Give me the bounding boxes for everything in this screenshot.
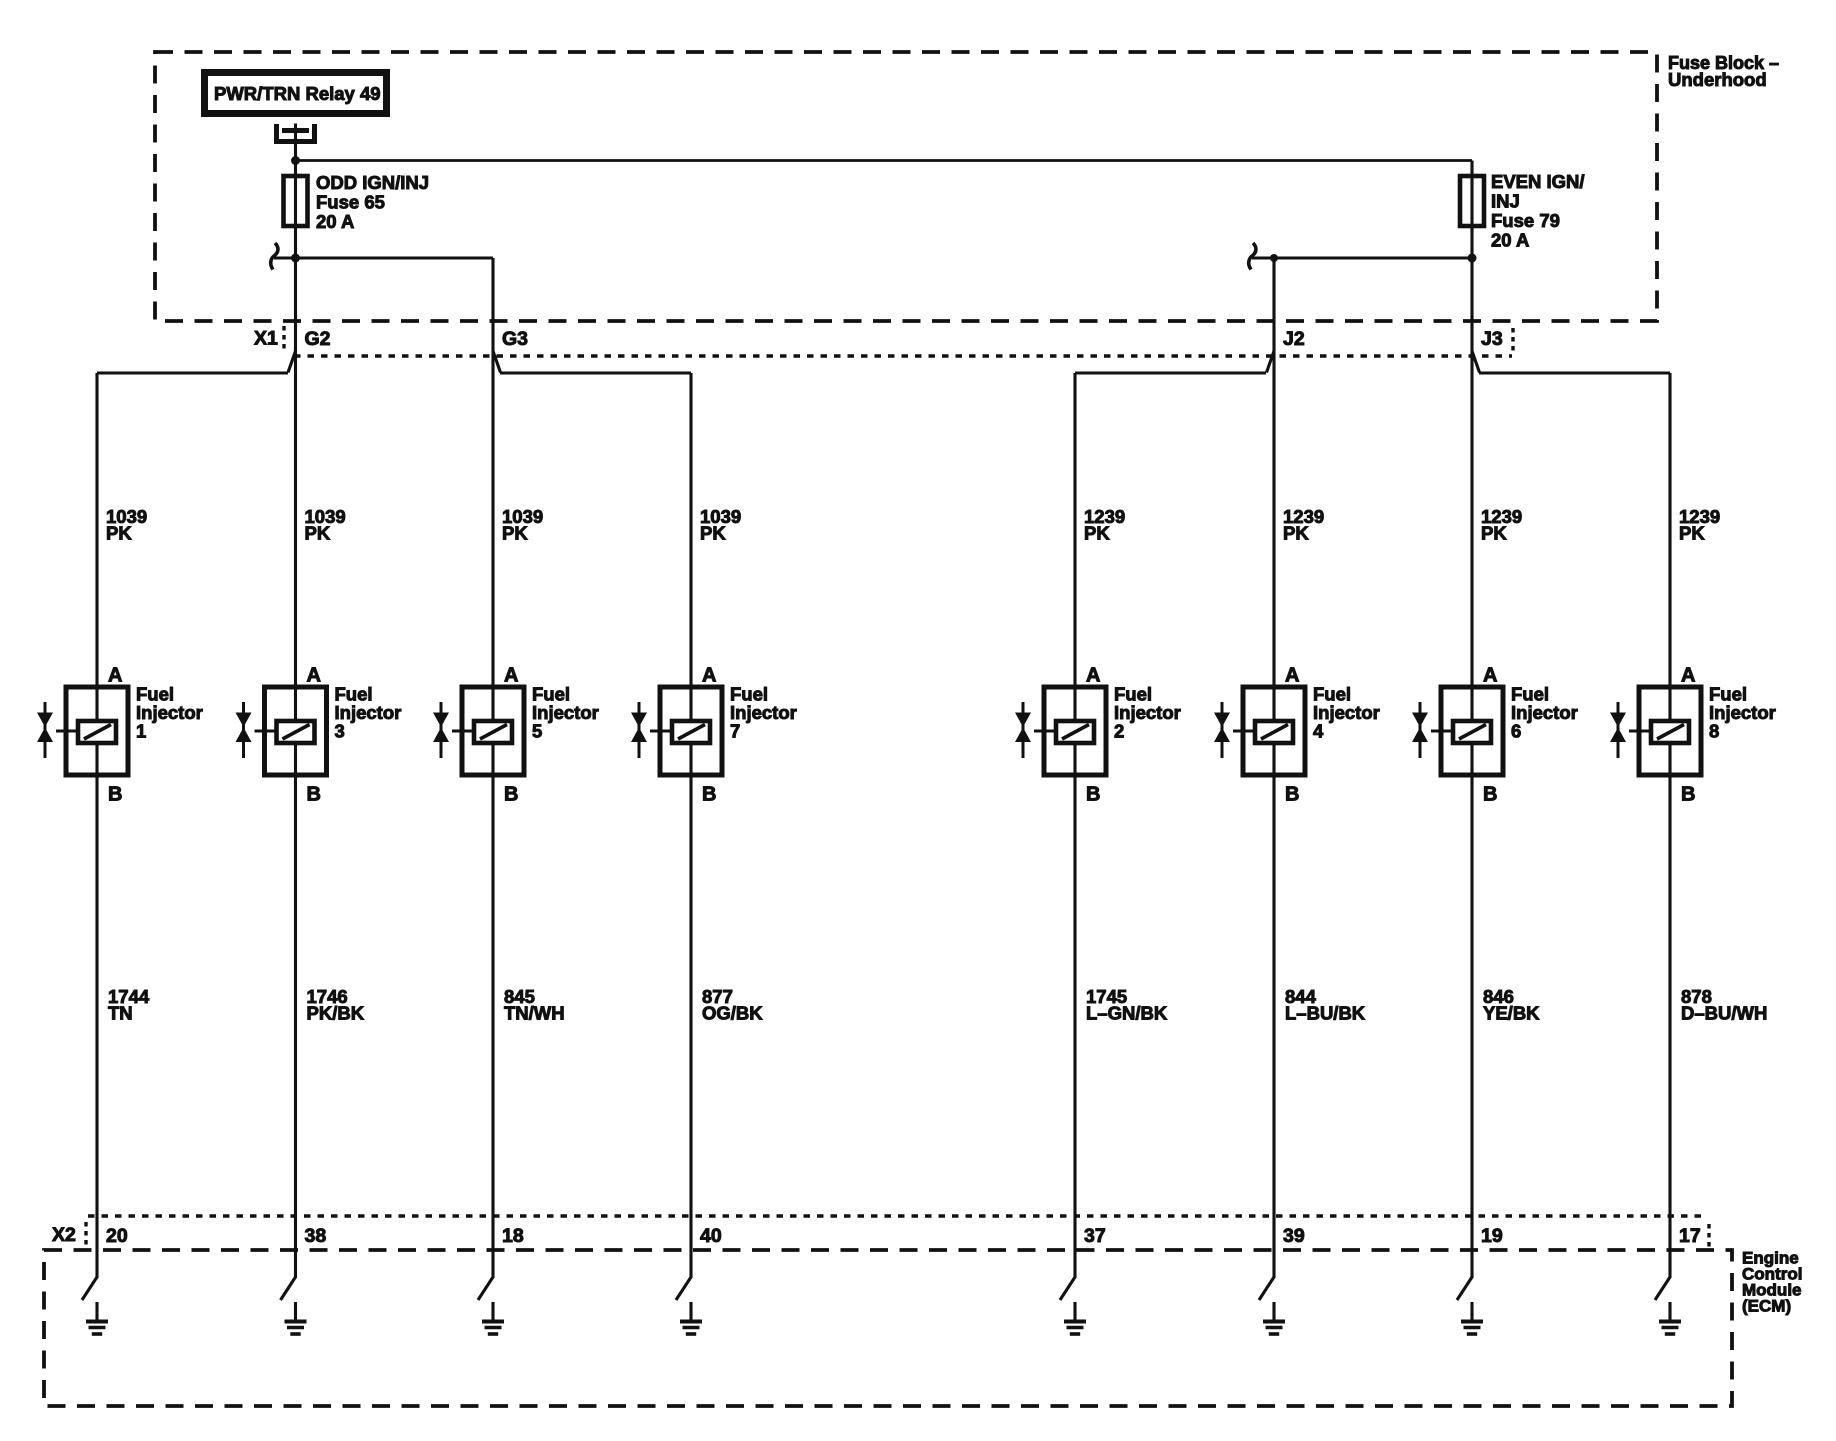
- svg-text:PK: PK: [305, 523, 331, 544]
- svg-text:YE/BK: YE/BK: [1483, 1003, 1540, 1024]
- svg-text:Underhood: Underhood: [1668, 69, 1767, 90]
- svg-text:D–BU/WH: D–BU/WH: [1681, 1003, 1767, 1024]
- svg-text:5: 5: [532, 721, 542, 742]
- svg-text:(ECM): (ECM): [1742, 1297, 1791, 1316]
- svg-text:PWR/TRN Relay 49: PWR/TRN Relay 49: [214, 83, 381, 104]
- svg-text:8: 8: [1709, 721, 1719, 742]
- svg-text:TN/WH: TN/WH: [504, 1003, 565, 1024]
- svg-text:G3: G3: [502, 328, 528, 350]
- svg-text:INJ: INJ: [1491, 191, 1520, 212]
- svg-text:Fuse 65: Fuse 65: [316, 192, 385, 213]
- svg-text:A: A: [1285, 665, 1299, 687]
- svg-text:A: A: [702, 665, 716, 687]
- svg-text:1: 1: [136, 721, 146, 742]
- svg-text:17: 17: [1679, 1225, 1701, 1247]
- svg-text:J2: J2: [1283, 328, 1305, 350]
- svg-text:4: 4: [1313, 721, 1324, 742]
- svg-text:37: 37: [1084, 1225, 1106, 1247]
- svg-text:39: 39: [1283, 1225, 1305, 1247]
- svg-text:ODD IGN/INJ: ODD IGN/INJ: [316, 172, 429, 193]
- svg-text:X2: X2: [52, 1224, 76, 1246]
- svg-text:B: B: [1285, 784, 1299, 806]
- svg-text:19: 19: [1481, 1225, 1503, 1247]
- svg-text:20: 20: [106, 1225, 128, 1247]
- svg-text:A: A: [108, 665, 122, 687]
- svg-text:PK/BK: PK/BK: [307, 1003, 365, 1024]
- svg-text:L–BU/BK: L–BU/BK: [1285, 1003, 1366, 1024]
- svg-text:A: A: [1483, 665, 1497, 687]
- svg-text:L–GN/BK: L–GN/BK: [1086, 1003, 1168, 1024]
- svg-text:B: B: [307, 784, 321, 806]
- svg-text:7: 7: [730, 721, 740, 742]
- svg-text:TN: TN: [108, 1003, 133, 1024]
- svg-text:2: 2: [1114, 721, 1124, 742]
- svg-text:B: B: [108, 784, 122, 806]
- svg-text:B: B: [504, 784, 518, 806]
- svg-text:A: A: [504, 665, 518, 687]
- svg-text:PK: PK: [1679, 523, 1705, 544]
- svg-text:J3: J3: [1481, 328, 1503, 350]
- svg-text:X1: X1: [254, 328, 278, 350]
- svg-text:Fuse 79: Fuse 79: [1491, 210, 1560, 231]
- svg-text:OG/BK: OG/BK: [702, 1003, 763, 1024]
- svg-text:B: B: [1681, 784, 1695, 806]
- svg-text:3: 3: [335, 721, 345, 742]
- svg-text:PK: PK: [502, 523, 528, 544]
- svg-text:20 A: 20 A: [1491, 230, 1529, 251]
- svg-text:B: B: [1483, 784, 1497, 806]
- svg-text:G2: G2: [305, 328, 331, 350]
- svg-text:A: A: [307, 665, 321, 687]
- svg-text:6: 6: [1511, 721, 1521, 742]
- svg-text:A: A: [1086, 665, 1100, 687]
- svg-text:A: A: [1681, 665, 1695, 687]
- svg-text:B: B: [1086, 784, 1100, 806]
- svg-text:PK: PK: [1084, 523, 1110, 544]
- svg-text:B: B: [702, 784, 716, 806]
- svg-text:PK: PK: [700, 523, 726, 544]
- svg-text:PK: PK: [1481, 523, 1507, 544]
- svg-text:40: 40: [700, 1225, 722, 1247]
- svg-text:18: 18: [502, 1225, 524, 1247]
- svg-text:PK: PK: [106, 523, 132, 544]
- svg-text:38: 38: [305, 1225, 327, 1247]
- svg-text:EVEN IGN/: EVEN IGN/: [1491, 171, 1585, 192]
- svg-text:20 A: 20 A: [316, 211, 354, 232]
- svg-text:PK: PK: [1283, 523, 1309, 544]
